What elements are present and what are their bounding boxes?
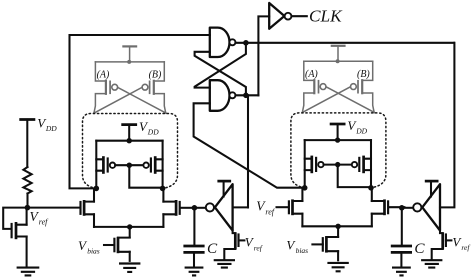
svg-text:C: C [207,240,218,257]
wire load gates tie-down (right block) [338,165,371,188]
svg-text:DD: DD [45,124,57,133]
transistor N4 Vref clamp (left) [224,231,244,260]
svg-text:DD: DD [355,127,367,136]
wire CLK output [292,15,307,17]
inverter U3 output stage (right, facing left) [413,184,440,230]
wire VDD to load rail (left) [128,125,130,141]
svg-text:ref: ref [39,218,49,227]
wire gray source rail (left) [95,61,164,63]
wire left load branch lead [95,141,97,189]
transistor N7 tail current source (right) [323,236,338,260]
transistor N3 tail current source (left) [114,237,129,261]
wire gate lead P2 [129,164,143,166]
wire G1 output to right rail [236,42,455,44]
svg-text:(A): (A) [305,69,318,80]
wire gate lead P1 [115,164,129,166]
wire tail node to tail transistor (right) [337,226,339,237]
node tail junction (right) [335,224,340,229]
wire resistor to Vref node [26,194,28,208]
wire cross-couple G2 output to G1 input [195,52,246,96]
svg-text:DD: DD [147,127,159,136]
wire cap node down to capacitor (right) [401,208,403,245]
wire Vref label to right comparator input gate [277,206,288,208]
power supply symbol above inverter (right) [425,180,439,183]
transistor N8 Vref clamp (right) [432,231,452,260]
dotted outline around load pair (right) [291,113,386,188]
wire VDD to load rail (right) [337,124,339,140]
wire diff pair source rail (left) [94,226,163,228]
ground (right capacitor) [392,268,411,276]
svg-text:(B): (B) [357,69,370,80]
svg-text:bias: bias [296,246,309,255]
power supply symbol above inverter (left) [217,180,231,183]
LEFT COMPARATOR BLOCK [78,46,192,272]
wire load source rail (left) [96,140,162,142]
wire left load branch lead (right block) [304,140,306,188]
transistor N1 input NMOS (left block) [81,190,95,227]
svg-text:CLK: CLK [309,7,343,26]
wire Vref node to left comparator input gate [27,207,79,209]
wire gate lead P4 [338,164,352,166]
RIGHT COMPARATOR BLOCK [286,46,404,271]
svg-text:ref: ref [461,243,470,252]
ground (right clamp) [421,260,442,267]
node gray supply junction (left) [127,60,131,64]
node cap node (left) [192,205,198,211]
node gray supply junction (right) [336,59,340,63]
wire gate of A to right corner (gray, right block) [326,87,375,113]
ground (tail, left) [119,264,140,272]
wire gate lead P3 [324,164,338,166]
wire G2 output down to left inverter input [247,95,249,207]
wire cross-couple G1 output to G2 input [195,43,246,88]
wire right comparator output to G2 input (diagonal feedback) [194,103,305,187]
wire right load branch lead [162,141,164,189]
nand gate G1 (top) [210,28,236,57]
svg-text:bias: bias [87,247,100,256]
node cap node (right) [399,205,405,211]
node left branch (right comparator output) [302,185,308,191]
transistor N6 cap-side NMOS (right block) [372,189,388,226]
power VDD symbol (left block) [121,123,137,126]
wire cap node to inverter output bubble (left) [194,207,205,209]
ground (left capacitor) [185,268,204,276]
ground (bias branch) [17,268,40,276]
svg-text:ref: ref [254,243,263,252]
node right branch (right block diode side) [368,185,374,191]
node tail junction (left) [127,224,132,229]
transistor A (gray, left block) [94,62,118,113]
inverter U1 CLK [269,3,291,29]
power VDD symbol (right block) [330,123,346,126]
transistor A (gray, right block) [302,61,326,112]
transistor B (gray, right block) [351,61,375,112]
transistor P4 load PMOS (right block) [352,156,371,174]
svg-text:(A): (A) [97,70,110,81]
wire VDD bias rail to resistor [26,120,28,168]
wire gate of A to right corner (gray cross-couple) [118,87,167,113]
transistor P1 load PMOS (left block) [96,156,115,174]
node VDD rail junction (left) [127,138,132,143]
ground (tail, right) [327,263,348,271]
capacitor C (left) [183,246,204,252]
wire gray supply to rail (right) [337,46,339,62]
wire G2 output up to CLK inverter input [258,16,269,95]
node Vref [25,205,31,211]
wire capacitor to ground (left) [193,254,195,267]
svg-text:ref: ref [265,207,275,216]
wire G2 output to CLK inverter [236,94,259,96]
dotted outline around load pair (left) [83,114,178,189]
node G2 output [243,93,249,99]
transistor P3 load PMOS (right block) [305,156,324,174]
wire supply to inverter (left) [223,181,225,196]
wire cap node to inverter output bubble (right) [402,207,413,209]
node left branch (comparator output) [94,186,100,192]
capacitor C (right) [391,246,412,252]
wire gate loop of diode transistor M0 [3,208,27,229]
resistor R (bias branch) [23,167,31,194]
wire supply to inverter (right) [430,181,432,196]
wire inverter input from latch (left) [233,206,248,208]
transistor P2 load PMOS (left block) [143,156,162,174]
wire gate lead Vbias (right) [312,243,322,245]
node VDD rail junction (right) [335,137,340,142]
svg-text:C: C [414,240,425,257]
wire cap node down to capacitor (left) [193,208,195,245]
transistor B (gray, left block) [142,62,166,113]
wire G1 output down right side to right inverter input [440,43,454,208]
wire load source rail (right) [305,139,371,141]
wire gray supply to rail (left) [129,46,131,62]
wire capacitor to ground (right) [400,254,402,267]
node load gates junction (left) [127,163,132,168]
inverter U2 output stage (left, facing left) [206,184,233,230]
power supply symbol (gray annotation, left) [122,45,137,47]
wire load gates tie-down to right branch [129,165,162,188]
wire gate N2 to cap node [181,207,192,209]
wire diff pair source rail (right) [302,225,371,227]
nand gate G2 (bottom) [210,80,236,111]
wire gate N6 to cap node (right) [389,206,404,208]
ground (left clamp) [214,260,235,267]
transistor N5 input NMOS (right block) [289,189,303,226]
wire left comparator output to top NAND input [70,35,210,188]
node load gates junction (right) [335,162,340,167]
node right branch (diode side) [160,186,166,192]
wire right load branch lead (right block) [370,140,372,188]
wire gate of B to left corner (gray cross-couple) [94,87,142,113]
wire gate lead Vbias [104,244,114,246]
node G1 output [243,40,249,46]
transistor N2 cap-side NMOS (left block) [163,190,179,227]
power VDD symbol (bias branch) [19,118,35,121]
wire tail node to tail transistor [129,227,131,238]
wire gray source rail (right) [304,60,373,62]
svg-text:(B): (B) [149,70,162,81]
transistor M0 diode-connected (bias) [12,209,27,267]
power supply symbol (gray annotation, right) [331,45,346,47]
wire gate of B to left corner (gray, right block) [302,87,350,113]
